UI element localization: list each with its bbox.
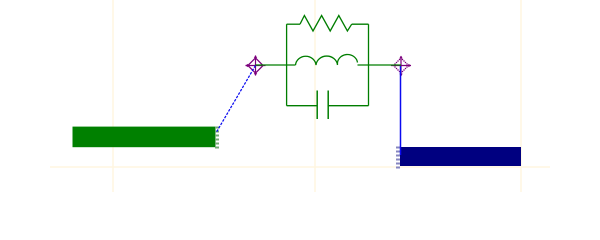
pin comb on green bar right edge: [215, 127, 219, 149]
wire: top rail left stub: [287, 23, 300, 25]
wire: top rail right stub: [352, 23, 369, 25]
wire: blue connection from node A to green bar: [217, 66, 256, 133]
inductor L1: [296, 54, 358, 65]
resistor R1: [300, 16, 352, 32]
wire: bottom rail left segment: [287, 105, 317, 107]
capacitor C1: [317, 91, 328, 120]
wire: bottom rail right segment: [328, 105, 368, 107]
node A: left port symbol (diamond with arrowed cross): [245, 55, 265, 76]
node B: right port symbol (dotted diamond with arrowed cross): [391, 56, 411, 77]
wire: green line from RLC block to node B: [358, 64, 402, 66]
pin comb on navy bar left edge: [396, 147, 400, 169]
wire: right vertical rail of RLC block: [368, 24, 370, 106]
wire: blue connection from node B down to navy bar: [400, 66, 402, 155]
component body: green bar terminal: [73, 127, 216, 148]
wire: green line from node A to RLC block (mid rail): [256, 64, 296, 66]
decorative faint grid lines (unlabeled): [50, 0, 550, 192]
wire: left vertical rail of RLC block: [286, 24, 288, 106]
component body: navy bar terminal: [400, 147, 521, 166]
